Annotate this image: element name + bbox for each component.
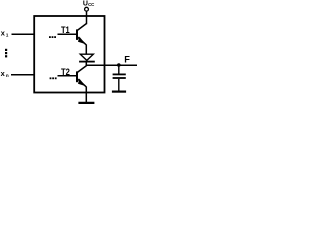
node F junction dot bbox=[117, 63, 121, 67]
wire node to capacitor bbox=[118, 65, 120, 74]
Ucc terminal circle bbox=[85, 7, 89, 11]
svg-text:n: n bbox=[6, 73, 9, 78]
wire diode to output node bbox=[85, 62, 87, 66]
svg-text:F: F bbox=[124, 55, 130, 65]
Ucc label bbox=[83, 1, 95, 8]
input x1 label bbox=[1, 28, 9, 37]
ground T2 emitter bbox=[78, 102, 94, 104]
wire x1 to box bbox=[12, 33, 35, 35]
capacitor C bbox=[113, 74, 126, 78]
transistor T1 bbox=[77, 24, 87, 45]
diode D1 bbox=[79, 54, 95, 61]
wire T2 emitter to ground bbox=[85, 87, 87, 103]
wire output F bbox=[86, 64, 137, 66]
svg-text:CC: CC bbox=[88, 2, 95, 7]
ellipsis before T1 bbox=[49, 36, 56, 38]
wire Ucc rail bbox=[86, 11, 88, 24]
svg-text:T1: T1 bbox=[61, 24, 70, 35]
wire xn to box bbox=[11, 74, 34, 76]
ellipsis before T2 bbox=[50, 77, 57, 79]
wire T1 base bbox=[58, 33, 77, 35]
wire T1 emitter to diode bbox=[85, 45, 87, 55]
wire capacitor to ground bbox=[118, 79, 120, 92]
wire T2 base bbox=[58, 75, 77, 77]
transistor T2 bbox=[77, 66, 87, 87]
input xn label bbox=[1, 69, 9, 78]
input ellipsis vertical bbox=[5, 49, 7, 58]
gate box bbox=[34, 16, 104, 93]
ground capacitor bbox=[112, 90, 126, 92]
